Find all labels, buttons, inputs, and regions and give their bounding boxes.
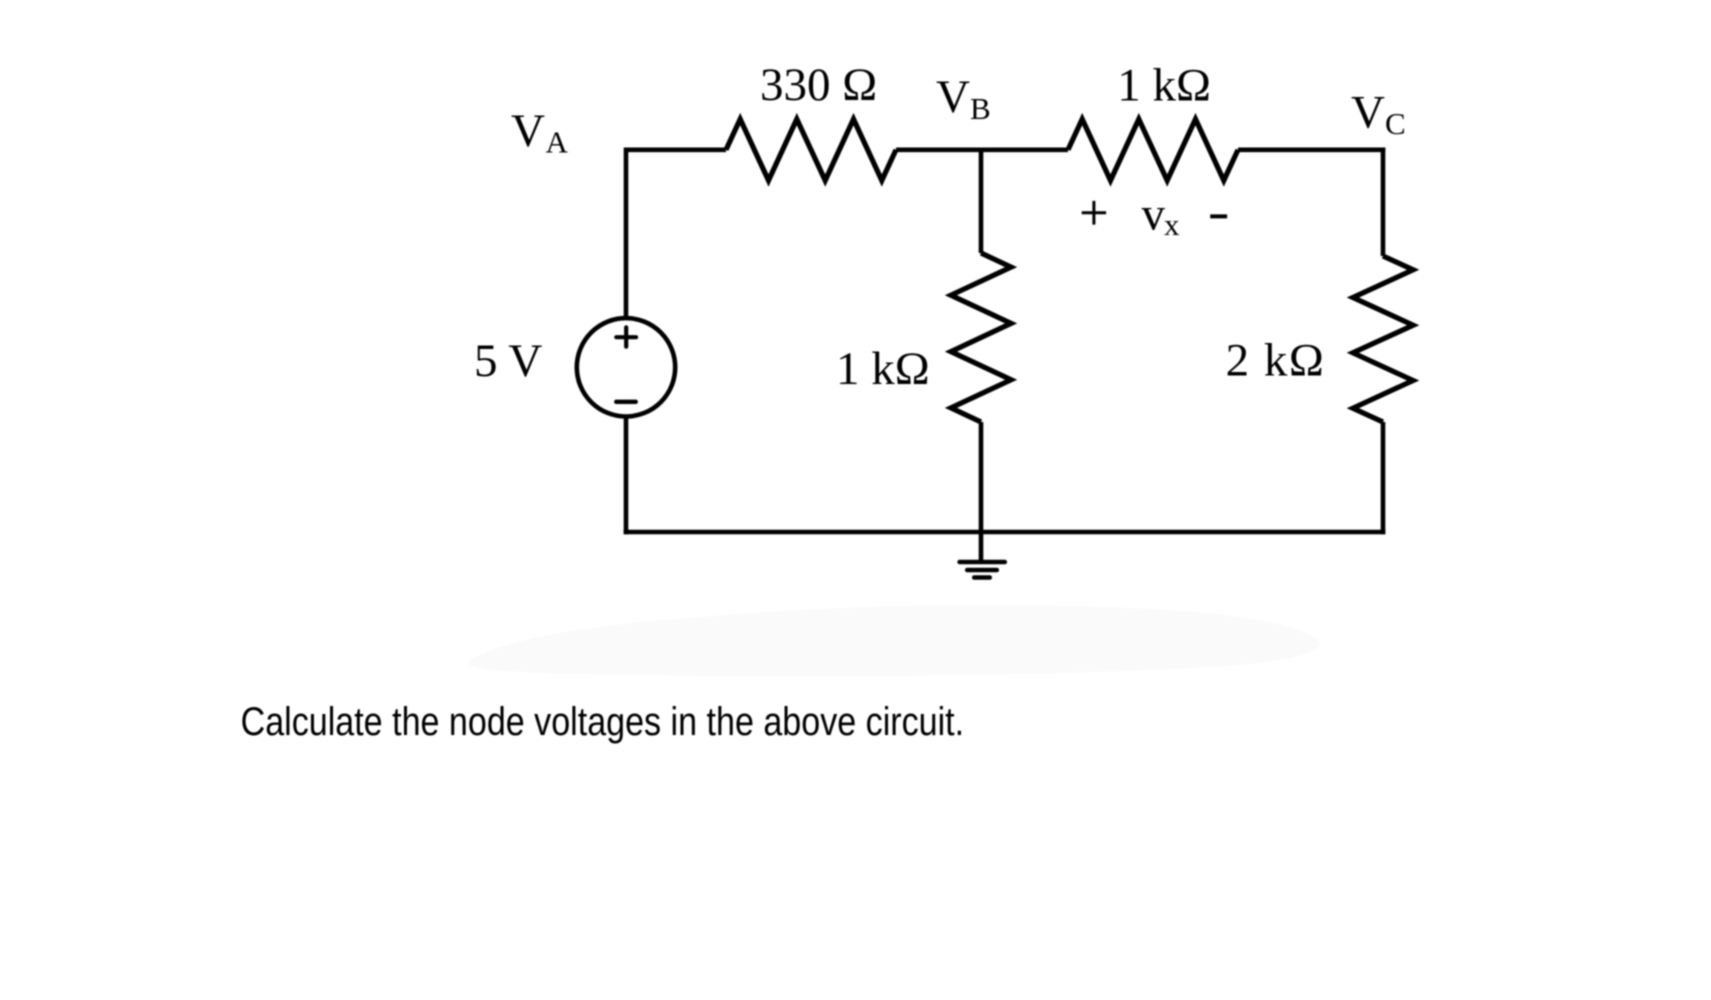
svg-text:A: A — [546, 125, 569, 160]
ground bar 1 — [960, 560, 1005, 565]
svg-text:1 kΩ: 1 kΩ — [836, 343, 930, 395]
svg-text:5 V: 5 V — [474, 335, 542, 387]
vx plus sign — [1082, 211, 1106, 214]
wire: node A corner to R1 — [626, 148, 726, 153]
svg-text:x: x — [1164, 207, 1180, 242]
wire: R1 to R2 through node B — [896, 148, 1068, 153]
svg-text:330 Ω: 330 Ω — [760, 59, 877, 111]
resistor R4 2 kohm vertical right — [1353, 256, 1413, 422]
svg-text:1 kΩ: 1 kΩ — [1117, 59, 1211, 111]
svg-text:2 kΩ: 2 kΩ — [1226, 334, 1326, 386]
wire: node C down to R4 — [1381, 148, 1386, 257]
ground bar 2 — [967, 568, 997, 573]
svg-text:Calculate the node voltages in: Calculate the node voltages in the above… — [241, 700, 965, 744]
ground bar 3 — [974, 575, 990, 580]
svg-text:V: V — [511, 105, 545, 157]
wire: R2 to node C corner — [1238, 148, 1385, 153]
eraser smudge (decorative) — [468, 605, 1319, 676]
vx minus sign — [1210, 214, 1227, 218]
wire: R4 to bottom rail — [1381, 422, 1386, 534]
voltage source plus — [616, 335, 636, 339]
svg-text:B: B — [970, 91, 991, 126]
svg-text:V: V — [936, 71, 970, 123]
wire: source bottom to bottom rail — [624, 417, 629, 535]
resistor R1 330 ohm horizontal — [726, 119, 896, 180]
resistor R2 1 kohm horizontal — [1068, 119, 1238, 180]
wire: R3 to ground stem — [979, 422, 984, 562]
resistor R3 1 kohm vertical middle — [951, 253, 1011, 422]
wire: node B down to R3 — [979, 148, 984, 254]
svg-text:V: V — [1351, 86, 1385, 138]
svg-text:v: v — [1142, 188, 1166, 240]
wire: left branch vertical down to source — [624, 148, 629, 319]
svg-text:C: C — [1385, 106, 1406, 141]
wire: bottom rail — [624, 530, 1386, 535]
voltage source minus — [616, 400, 636, 404]
voltage source V1 circle — [577, 318, 675, 416]
